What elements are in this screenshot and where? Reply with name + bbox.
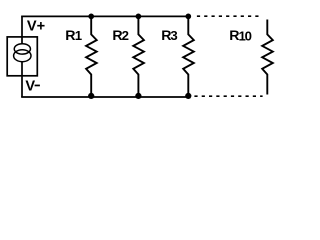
node dot bottom R3 <box>185 93 191 99</box>
node dot top R3 <box>185 14 191 20</box>
node dot bottom R1 <box>88 93 94 99</box>
resistor R10 <box>262 20 273 95</box>
node dot top R2 <box>136 14 142 20</box>
svg-text:2: 2 <box>122 28 129 43</box>
upper circle of source <box>14 44 30 54</box>
source box <box>7 37 37 76</box>
svg-text:10: 10 <box>239 28 252 43</box>
wire: bottom rail from corner to R3 node <box>21 96 188 98</box>
wire: source top lead up to top rail <box>21 16 23 43</box>
label R1 <box>65 28 82 44</box>
voltage source V (two interlocking circles) <box>14 44 31 62</box>
node dot bottom R2 <box>135 93 141 99</box>
dashed wire top (omitted resistors R4..R9) <box>197 15 260 17</box>
resistor R3 <box>183 16 194 97</box>
svg-text:1: 1 <box>75 28 82 43</box>
wire: top rail from corner to R3 node <box>21 15 188 17</box>
label R3 <box>161 28 178 44</box>
label R10 <box>229 28 251 44</box>
svg-text:3: 3 <box>170 28 177 43</box>
lower circle of source <box>14 50 31 62</box>
resistor R2 <box>133 16 144 97</box>
dashed wire bottom (omitted resistors R4..R9) <box>194 95 262 97</box>
label R2 <box>112 28 129 44</box>
svg-text:V: V <box>25 78 35 94</box>
node dot top R1 <box>88 14 94 20</box>
svg-text:V+: V+ <box>27 19 45 35</box>
wire: source bottom lead down to bottom rail <box>21 62 23 97</box>
resistor R1 <box>86 16 97 97</box>
